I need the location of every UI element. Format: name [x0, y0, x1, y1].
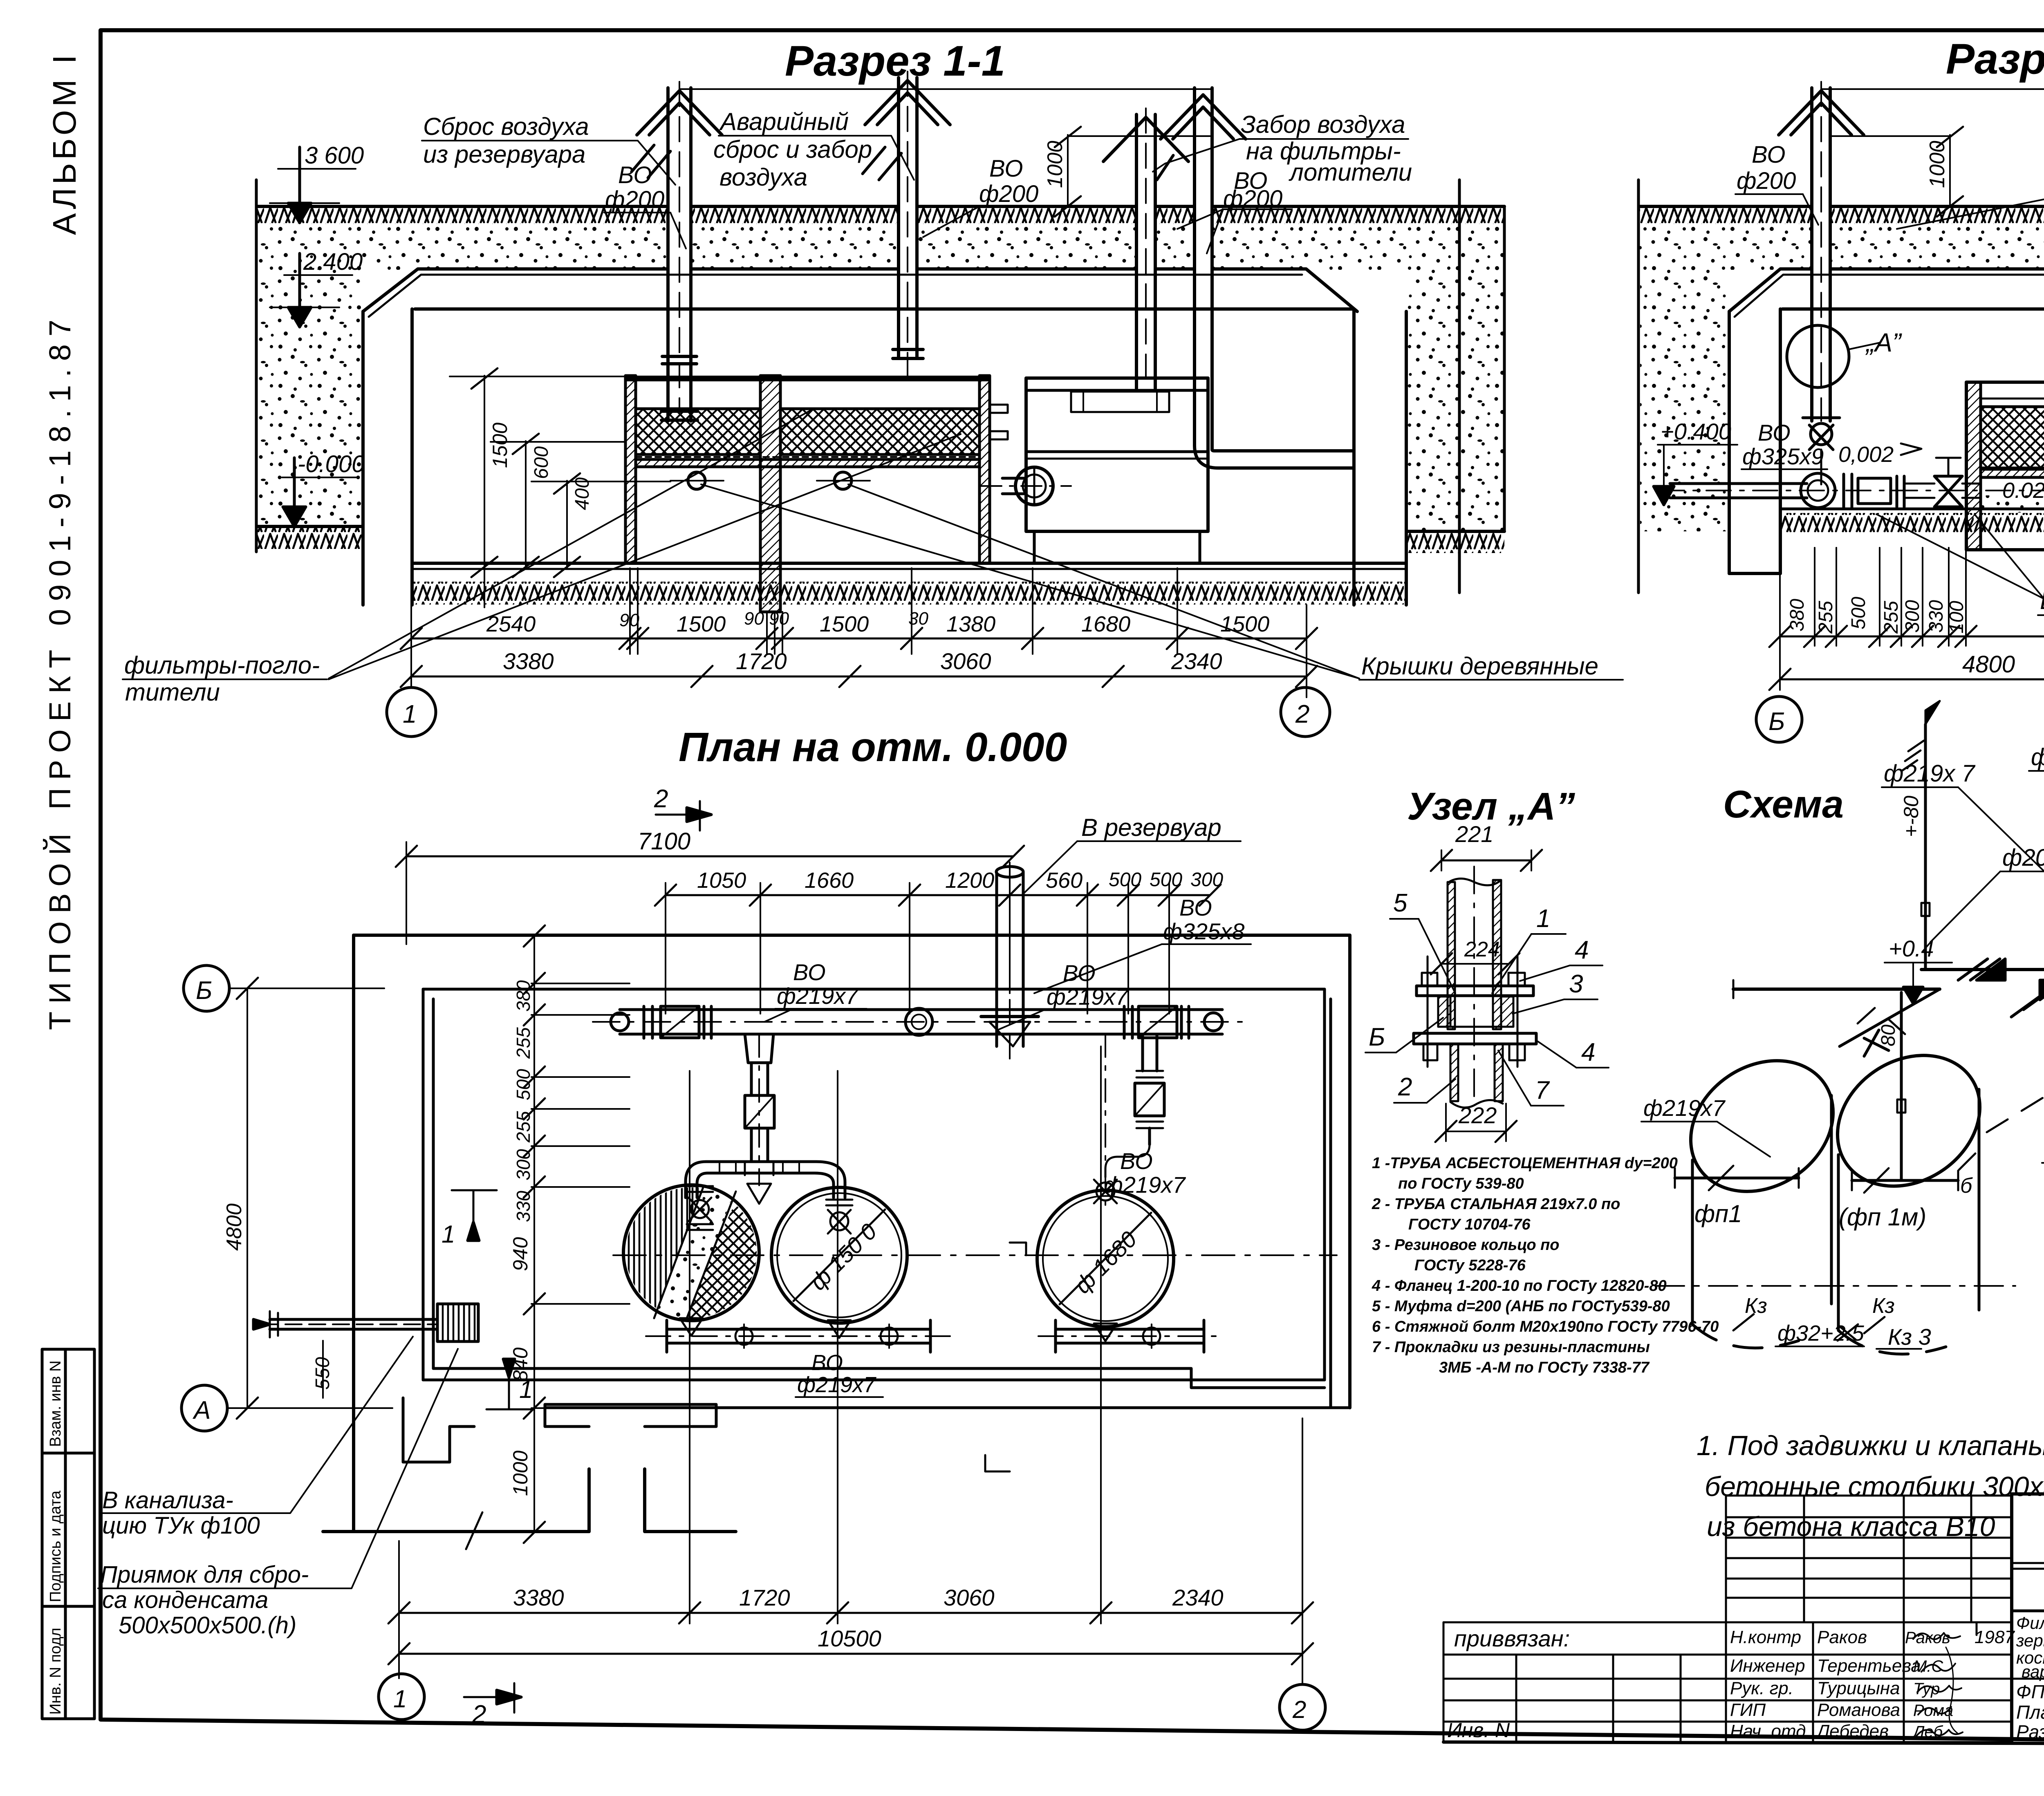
tank1 inlet valve [687, 1186, 713, 1230]
svg-text:1720: 1720 [739, 1585, 790, 1610]
revision table small [1726, 1496, 2012, 1622]
svg-text:ф200: ф200 [2031, 744, 2044, 770]
soil stipple column left [259, 270, 362, 526]
section mark 1 lower [486, 1359, 533, 1409]
svg-text:0.02: 0.02 [2002, 478, 2044, 503]
svg-text:зервуаров чистой воды ем-: зервуаров чистой воды ем- [2016, 1631, 2044, 1650]
elevation mark 2.400 [270, 249, 363, 327]
svg-text:3: 3 [1569, 970, 1583, 998]
roof slab outer [363, 269, 1357, 311]
chimney 1 [637, 82, 722, 421]
svg-text:Раков: Раков [1817, 1627, 1867, 1647]
plan inner walls [423, 988, 1325, 991]
svg-text:ф219х 7: ф219х 7 [1884, 760, 1976, 787]
svg-text:ГОСТУ 10704-76: ГОСТУ 10704-76 [1408, 1216, 1531, 1233]
r2 dim line 4800 [1780, 679, 2044, 681]
svg-text:1: 1 [393, 1685, 407, 1713]
svg-text:ВО: ВО [989, 155, 1023, 182]
plan axis verticals [690, 1046, 1101, 1602]
wall penetration left [437, 1304, 478, 1341]
dim 1000 r2 [1830, 127, 1963, 217]
branch to tank3 [1094, 1034, 1164, 1210]
dim 400 vertical r1 [531, 473, 670, 577]
svg-text:Леб: Леб [1912, 1723, 1943, 1741]
chimney 2 [865, 72, 950, 376]
svg-text:(фп 1м): (фп 1м) [1839, 1203, 1926, 1231]
leader text filtry-poglotiteli [124, 652, 320, 706]
axis bubble 1 plan [379, 1674, 424, 1720]
bolts top [1422, 973, 1437, 986]
under floor hatch band [412, 582, 1406, 605]
svg-text:Лебедев: Лебедев [1816, 1721, 1889, 1741]
tank circle 3 [1037, 1190, 1174, 1327]
svg-text:Кз 3: Кз 3 [1888, 1324, 1931, 1350]
plan bottom dim row [399, 1414, 1302, 1684]
svg-text:1680: 1680 [1081, 612, 1130, 636]
svg-text:1000: 1000 [509, 1451, 532, 1496]
pipe top datum line [679, 88, 1210, 90]
chimney r2 [1779, 82, 1864, 421]
svg-text:255: 255 [1880, 601, 1902, 634]
riser R1 [1924, 724, 1927, 970]
svg-text:2: 2 [472, 1700, 486, 1729]
filter media crosshatch cell 1 [636, 409, 760, 455]
svg-text:1. Под задвижки и клапаны у: 1. Под задвижки и клапаны устанавливаютс… [1697, 1430, 2044, 1461]
svg-text:б: б [1960, 1174, 1973, 1198]
signature rows [1726, 1622, 2015, 1742]
svg-text:ВО: ВО [1752, 141, 1786, 168]
label VO f200 r2 left [1737, 141, 1796, 194]
label 80 f219x7 plan mid [1047, 960, 1129, 1010]
svg-text:Аварийный: Аварийный [719, 108, 849, 135]
floor pipe r2 [1660, 458, 2044, 508]
leader text avariyniy [713, 108, 872, 191]
riser R4 to cyl2 [1900, 992, 1903, 1180]
svg-text:255: 255 [513, 1111, 534, 1143]
soil stipple band top [258, 224, 1504, 270]
elevation line left r2 [1637, 180, 1640, 593]
stamp outer [2012, 1492, 2044, 1496]
svg-text:4: 4 [1575, 936, 1589, 964]
svg-text:ф219х7: ф219х7 [1643, 1095, 1726, 1121]
dashed b1 line left [1987, 989, 2044, 1132]
svg-text:Подпись и дата: Подпись и дата [47, 1490, 64, 1602]
chimney 3 [1103, 108, 1188, 388]
svg-text:АЛЬБОМ I: АЛЬБОМ I [46, 52, 83, 235]
riser pipe to reservoir [981, 862, 1038, 1063]
svg-text:ВО: ВО [811, 1350, 843, 1375]
svg-text:Кз: Кз [1872, 1294, 1895, 1318]
elevation line left [255, 180, 258, 552]
r2 bottom dim extensions [1780, 527, 2044, 690]
svg-text:фильтры-погло-: фильтры-погло- [124, 652, 320, 679]
razrez1 dim row 2 [411, 676, 1307, 678]
svg-text:4800: 4800 [1962, 651, 2015, 678]
tee and down branch [745, 1034, 774, 1185]
right soil edge line [1458, 180, 1461, 593]
svg-text:сброс и забор: сброс и забор [713, 136, 872, 163]
svg-text:3 - Резиновое кольцо по: 3 - Резиновое кольцо по [1372, 1236, 1560, 1254]
chimney 4 with elbow [1161, 88, 1354, 468]
dim 550 [322, 1341, 324, 1398]
tank circle 1 hatched [623, 1185, 759, 1321]
svg-text:Тур: Тур [1913, 1680, 1940, 1698]
svg-text:Рук. гр.: Рук. гр. [1730, 1678, 1793, 1698]
svg-text:ф200: ф200 [2002, 844, 2044, 871]
valve on riser r2 [1803, 418, 1840, 484]
svg-text:940: 940 [509, 1237, 532, 1271]
valve on cyl2 riser [1864, 1030, 1889, 1056]
elevation mark -0.000 [282, 451, 365, 526]
svg-text:„А”: „А” [1865, 328, 1902, 357]
svg-text:3060: 3060 [940, 648, 991, 674]
svg-text:380: 380 [513, 980, 534, 1012]
svg-text:Б: Б [196, 976, 212, 1005]
roof slab r2 [1729, 269, 2044, 311]
label VO f200 no1 [605, 162, 664, 213]
svg-text:Разрезы 1-1; 2-2. Схема: Разрезы 1-1; 2-2. Схема [2016, 1721, 2044, 1742]
svg-text:2: 2 [654, 785, 668, 813]
svg-text:500: 500 [1848, 597, 1869, 629]
parts list text [1372, 1155, 1719, 1376]
axis bubble A plan [182, 1385, 227, 1431]
lower pipe walls [1450, 1044, 1458, 1101]
dim 7100 [406, 855, 1013, 858]
svg-text:ВО: ВО [1179, 895, 1212, 920]
svg-text:ВО: ВО [618, 162, 652, 188]
svg-text:ВО: ВО [1758, 420, 1791, 446]
axis bubble 2 plan [1280, 1684, 1325, 1730]
svg-text:300: 300 [1190, 869, 1223, 891]
svg-text:2340: 2340 [1171, 648, 1222, 674]
cylinder 1 [1656, 1034, 1858, 1348]
svg-text:Крышки деревянные: Крышки деревянные [1361, 652, 1598, 680]
glands hatched [1438, 997, 1450, 1027]
filtry leader lines [329, 409, 961, 679]
svg-text:330: 330 [513, 1191, 534, 1222]
svg-text:фп1: фп1 [1694, 1200, 1742, 1227]
kryshki leader lines [701, 484, 1359, 679]
svg-text:Кз: Кз [1745, 1294, 1767, 1318]
TP row [2012, 1563, 2044, 1569]
bottom flange plate [1414, 1033, 1536, 1044]
svg-text:2: 2 [1398, 1073, 1412, 1101]
elevation mark 3.600 [270, 142, 364, 223]
svg-text:Взам. инв N: Взам. инв N [47, 1360, 64, 1447]
svg-text:ФП 1; ФП 1М.: ФП 1; ФП 1М. [2016, 1681, 2044, 1702]
partition wall hatched [760, 376, 780, 612]
svg-text:224: 224 [1464, 938, 1500, 961]
datum line r2 [1821, 88, 2044, 90]
svg-text:ВО: ВО [1120, 1148, 1153, 1174]
svg-text:1660: 1660 [805, 868, 854, 893]
floor pipe with pump flange [981, 467, 1071, 505]
left dims column verticals [533, 936, 535, 1532]
soil stipple band r2 [1639, 224, 2044, 270]
svg-text:Н.контр: Н.контр [1730, 1627, 1801, 1647]
svg-text:цию ТУк ф100: цию ТУк ф100 [102, 1512, 260, 1539]
svg-text:Фильтры-поглотители для ре-: Фильтры-поглотители для ре- [2016, 1613, 2044, 1633]
svg-text:Забор воздуха: Забор воздуха [1241, 111, 1405, 138]
svg-text:ф325х9: ф325х9 [1742, 443, 1824, 469]
triangle break on drop [1840, 989, 1940, 1046]
svg-text:4 - Фланец 1-200-10 по ГОСТ: 4 - Фланец 1-200-10 по ГОСТу 12820-80 [1372, 1277, 1667, 1294]
svg-text:500: 500 [513, 1069, 534, 1100]
svg-text:Сброс воздуха: Сброс воздуха [423, 113, 589, 140]
leader text sbros vozduha [423, 113, 589, 168]
break mark bottom wall [466, 1512, 482, 1549]
interior floor slab [412, 562, 1406, 565]
plan dim 10500 [399, 1653, 1302, 1655]
main line schema [1921, 968, 2044, 971]
dim 1000 vertical [1043, 127, 1210, 217]
svg-text:1: 1 [1536, 905, 1550, 933]
svg-text:255: 255 [513, 1027, 534, 1059]
svg-text:ф200: ф200 [979, 181, 1038, 207]
svg-text:ВО: ВО [793, 959, 826, 985]
label v kanalizaciyu [102, 1487, 260, 1539]
svg-text:1: 1 [519, 1376, 533, 1403]
album caption vertical [43, 52, 83, 1030]
svg-text:500: 500 [1150, 869, 1182, 891]
tank circle 2 [771, 1187, 907, 1323]
svg-text:550: 550 [312, 1357, 334, 1390]
svg-text:255: 255 [1815, 601, 1837, 634]
razrez1 dim extension verticals [411, 568, 1307, 697]
svg-text:1: 1 [442, 1220, 455, 1248]
axis bubble B [1756, 696, 1802, 742]
svg-text:4800: 4800 [222, 1203, 246, 1251]
svg-text:1720: 1720 [736, 648, 787, 674]
svg-text:А: А [192, 1396, 211, 1424]
svg-text:30: 30 [908, 609, 928, 629]
filter media crosshatch cell 2 [780, 409, 979, 455]
left wall [361, 311, 365, 605]
svg-text:0,002: 0,002 [1838, 442, 1894, 467]
svg-text:300: 300 [513, 1149, 534, 1180]
label 80 f219x7 bottom [797, 1350, 876, 1397]
plan outer walls [354, 935, 1350, 1408]
svg-text:План на отм. 0.000: План на отм. 0.000 [2016, 1702, 2044, 1723]
svg-text:2: 2 [1292, 1696, 1306, 1723]
ground hatch band top [258, 205, 1504, 208]
svg-text:330: 330 [1925, 600, 1947, 633]
tank2 inlet valve [826, 1200, 852, 1234]
marker +0.400 [1654, 419, 1737, 505]
svg-text:Раков: Раков [1905, 1629, 1950, 1647]
soil stipple column right [1407, 270, 1504, 531]
svg-text:Приямок для сбро-: Приямок для сбро- [100, 1561, 309, 1588]
svg-text:Нач. отд.: Нач. отд. [1730, 1721, 1811, 1741]
svg-text:90 90: 90 90 [744, 609, 789, 629]
ceiling line [415, 307, 1354, 311]
svg-text:3380: 3380 [513, 1585, 564, 1610]
svg-text:10500: 10500 [818, 1626, 881, 1651]
svg-text:1500: 1500 [489, 423, 511, 468]
razrez1 dim row 1 [411, 638, 1307, 640]
left wall r2 [1728, 311, 1731, 573]
svg-text:90: 90 [619, 610, 639, 630]
label VO f200 no2 [979, 155, 1038, 207]
section mark 1 upper [442, 1190, 497, 1248]
axis bubble 2 [1281, 687, 1330, 737]
svg-text:3МБ -А-М по ГОСТу 7338-77: 3МБ -А-М по ГОСТу 7338-77 [1439, 1359, 1650, 1376]
cylinder 2 [1812, 1029, 2015, 1354]
manifold to tanks [686, 1162, 845, 1204]
plan bottom stepped footing [323, 1469, 736, 1532]
label zabor vozduha [1241, 111, 1412, 186]
axis bubble B plan [184, 965, 229, 1011]
svg-text:ф219х7: ф219х7 [777, 983, 859, 1009]
svg-text:воздуха: воздуха [719, 163, 807, 191]
svg-text:+-80: +-80 [1900, 795, 1923, 837]
section mark 2 bottom [464, 1683, 521, 1729]
svg-text:221: 221 [1455, 821, 1493, 847]
r2 dim line 2680 [1780, 636, 2044, 638]
svg-text:3060: 3060 [944, 1585, 995, 1610]
svg-text:1050: 1050 [697, 868, 746, 893]
svg-text:ф219х7: ф219х7 [1104, 1172, 1186, 1198]
svg-text:по ГОСТу 539-80: по ГОСТу 539-80 [1398, 1175, 1524, 1192]
dim row plan top [666, 894, 1210, 896]
svg-text:вариант с клапанами: вариант с клапанами [2022, 1662, 2044, 1681]
notes primechaniya [1697, 1363, 2044, 1542]
svg-text:5: 5 [1393, 889, 1407, 917]
dim 1500 vertical r1 [450, 368, 625, 607]
svg-text:бетонные столбики 300х300х: бетонные столбики 300х300хh ( по месту) [1705, 1471, 2044, 1502]
svg-text:560: 560 [1046, 868, 1083, 893]
header pipe [593, 1006, 1251, 1038]
svg-text:7100: 7100 [638, 828, 690, 855]
svg-text:2 - ТРУБА СТАЛЬНАЯ 219х7.0 по: 2 - ТРУБА СТАЛЬНАЯ 219х7.0 по [1372, 1196, 1620, 1213]
svg-text:тители: тители [125, 679, 220, 706]
section mark 2 top [654, 785, 711, 831]
svg-text:Б: Б [1768, 708, 1785, 736]
svg-text:ф200: ф200 [605, 186, 664, 213]
center dashdot line tanks [613, 1254, 1337, 1256]
soil stipple column left r2 [1640, 270, 1729, 531]
svg-text:Терентьева: Терентьева [1817, 1656, 1921, 1676]
svg-text:ф200: ф200 [1223, 186, 1282, 212]
svg-text:1200: 1200 [945, 868, 994, 893]
svg-text:1380: 1380 [946, 612, 995, 636]
svg-text:2340: 2340 [1172, 1585, 1224, 1610]
svg-text:Разрез 1-1: Разрез 1-1 [785, 37, 1005, 85]
grade line left outside [258, 525, 363, 528]
svg-text:Инв. N подл: Инв. N подл [47, 1628, 64, 1715]
svg-text:ф32+2.5: ф32+2.5 [1777, 1321, 1865, 1346]
connection stubs on filter box [989, 405, 1008, 413]
svg-text:ф219х7: ф219х7 [797, 1373, 876, 1397]
left attach table [1443, 1622, 1726, 1742]
label VO f325x9 [1742, 420, 1824, 469]
bottom pipe under tanks [646, 1318, 1222, 1352]
svg-text:1987: 1987 [1975, 1627, 2015, 1647]
detail circle A [1787, 325, 1849, 387]
upper pipe walls [1448, 878, 1501, 885]
outlet pipe left [253, 1311, 437, 1337]
svg-text:ф200: ф200 [1737, 168, 1796, 194]
svg-text:са конденсата: са конденсата [102, 1587, 268, 1613]
svg-text:+0.400: +0.400 [1661, 419, 1731, 444]
svg-text:Романова: Романова [1817, 1700, 1900, 1720]
project description [2012, 1610, 2044, 1612]
svg-text:ф325х8: ф325х8 [1163, 918, 1244, 944]
right wall [1352, 309, 1356, 605]
drain circle right [834, 472, 852, 489]
svg-text:Схема: Схема [1723, 783, 1844, 826]
label VO f200 no3 [1223, 168, 1282, 212]
svg-text:Турицына: Турицына [1817, 1678, 1900, 1698]
svg-text:В резервуар: В резервуар [1081, 814, 1221, 841]
svg-text:1500: 1500 [820, 612, 869, 636]
svg-text:1: 1 [403, 700, 417, 728]
ground hatch band r2 [1639, 205, 2044, 208]
svg-text:1000: 1000 [1043, 141, 1067, 188]
svg-text:1000: 1000 [1925, 141, 1949, 188]
svg-text:из резервуара: из резервуара [423, 141, 585, 168]
svg-text:В канализа-: В канализа- [102, 1487, 233, 1514]
svg-text:ГОСТу 5228-76: ГОСТу 5228-76 [1414, 1257, 1526, 1274]
svg-text:лотители: лотители [1289, 159, 1412, 186]
svg-text:приввязан:: приввязан: [1454, 1626, 1570, 1651]
flange assembly top plate [1416, 986, 1533, 996]
svg-text:ф219х7: ф219х7 [1047, 984, 1129, 1010]
axis bubble 1 [387, 687, 436, 737]
svg-text:7 - Прокладки из резины-пласти: 7 - Прокладки из резины-пластины [1372, 1339, 1650, 1356]
svg-text:+0.4: +0.4 [1889, 936, 1934, 961]
filter box r2 [1966, 382, 2044, 550]
svg-text:Бетонные столбики: Бетонные столбики [2040, 587, 2044, 615]
label 80 f325x8 plan [1163, 895, 1244, 944]
svg-text:1 -ТРУБА АСБЕСТОЦЕМЕНТНАЯ dу=2: 1 -ТРУБА АСБЕСТОЦЕМЕНТНАЯ dу=200 [1372, 1155, 1678, 1172]
svg-text:ГИП: ГИП [1730, 1700, 1766, 1720]
label 80 f219x7 header [777, 959, 859, 1009]
svg-text:600: 600 [531, 446, 552, 479]
svg-text:400: 400 [572, 477, 593, 510]
svg-text:План на отм. 0.000: План на отм. 0.000 [679, 724, 1067, 770]
svg-text:4: 4 [1581, 1038, 1595, 1066]
svg-text:Б: Б [1369, 1023, 1385, 1051]
dim 600 vertical r1 [491, 434, 625, 577]
svg-text:222: 222 [1458, 1102, 1497, 1128]
svg-text:Инв. N: Инв. N [1447, 1719, 1510, 1742]
svg-text:1500: 1500 [1220, 612, 1269, 636]
svg-text:500: 500 [1109, 869, 1141, 891]
svg-text:7: 7 [1535, 1076, 1550, 1104]
svg-text:80: 80 [1878, 1024, 1899, 1046]
svg-text:5 - Муфта d=200 (АНБ по ГОСТу: 5 - Муфта d=200 (АНБ по ГОСТу539-80 [1372, 1298, 1670, 1315]
filter box section [625, 376, 989, 381]
svg-text:6 - Стяжной болт М20х190по ГО: 6 - Стяжной болт М20х190по ГОСТу 7796-70 [1372, 1318, 1719, 1335]
label priyamok [100, 1561, 309, 1639]
dim 4800 plan left [247, 988, 248, 1408]
drain circle left [688, 472, 705, 489]
svg-text:ТИПОВОЙ ПРОЕКТ 0901-9-18.1.87: ТИПОВОЙ ПРОЕКТ 0901-9-18.1.87 [43, 312, 77, 1030]
svg-text:500х500х500.(h): 500х500х500.(h) [119, 1612, 296, 1639]
svg-text:3 600: 3 600 [305, 142, 364, 169]
right filter tank [1026, 378, 1208, 563]
signature scribbles [1913, 1633, 1963, 1736]
bolts bottom [1423, 1044, 1437, 1060]
svg-text:2: 2 [1295, 700, 1309, 728]
filter floor strip [636, 456, 979, 458]
plan bottom wall lines [423, 1368, 1350, 1408]
floor r2 [1780, 508, 2044, 511]
left horizontal line schema [1733, 988, 1940, 991]
svg-text:Разрез 2-2: Разрез 2-2 [1946, 35, 2044, 83]
margin table bottom-left [42, 1349, 94, 1719]
